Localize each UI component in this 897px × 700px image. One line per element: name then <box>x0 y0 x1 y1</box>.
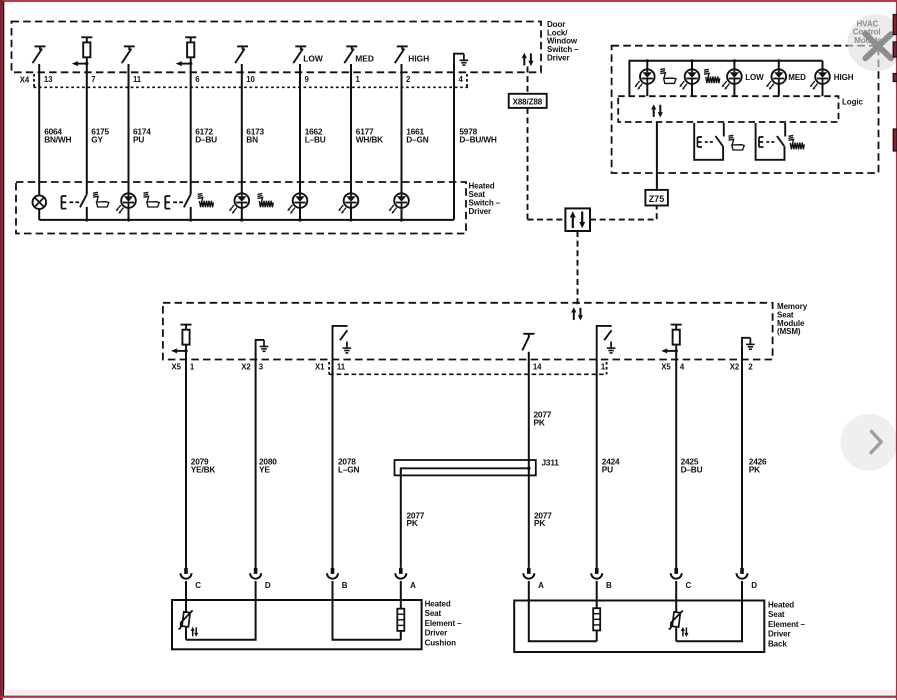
wire 6173 BN (pin 10 to LED) <box>241 64 243 193</box>
svg-text:10: 10 <box>246 75 255 84</box>
svg-text:L–GN: L–GN <box>338 464 360 474</box>
fuse F6 with feed arrow (pin 6) <box>176 37 197 66</box>
ground symbol G4 (pin 4) <box>454 54 468 65</box>
wire 1662 L-BU (pin 9 to LED) <box>299 64 301 193</box>
position switch w/ ground (X1 pin 11) <box>333 326 352 360</box>
seat icon (plain) <box>660 69 676 84</box>
svg-text:X2: X2 <box>730 362 740 371</box>
connector pin C (back) <box>671 568 692 601</box>
svg-text:PU: PU <box>602 464 613 474</box>
connector pin B (back) <box>591 568 612 601</box>
wire (dashed) harness box down to MSM <box>577 231 579 306</box>
svg-text:D–BU: D–BU <box>681 464 703 474</box>
svg-text:Heated: Heated <box>425 600 451 609</box>
svg-text:BN/WH: BN/WH <box>44 134 71 144</box>
svg-text:PK: PK <box>534 417 545 427</box>
Door Lock/Window Switch - Driver module box <box>12 22 542 73</box>
Heated Seat Element - Driver Back box <box>514 601 764 653</box>
svg-text:14: 14 <box>533 362 542 371</box>
harness pass-through box with up/down arrows <box>565 208 590 231</box>
right edge red tab 3 <box>893 74 897 82</box>
svg-text:J311: J311 <box>542 458 560 468</box>
wire 6172 D-BU (pin 6 to E-switch) <box>190 64 192 194</box>
svg-text:Driver: Driver <box>469 207 492 216</box>
wire (dashed) to body harness box <box>528 219 566 221</box>
ground symbol (X2 pin 3) <box>256 340 269 351</box>
svg-text:Seat: Seat <box>425 609 442 618</box>
connector X4 right separator <box>466 74 468 88</box>
svg-text:C: C <box>686 581 692 590</box>
right thin red edge line <box>896 0 897 700</box>
svg-text:11: 11 <box>133 75 142 84</box>
connector X4 left separator <box>33 74 35 88</box>
switch S1 MED (pin 1) <box>344 46 357 63</box>
heater element (cushion) <box>397 600 404 640</box>
svg-text:B: B <box>342 581 348 590</box>
svg-text:X2: X2 <box>241 362 251 371</box>
bottom pink fade <box>4 690 897 696</box>
switch lever (X1 pin 14) <box>522 334 534 351</box>
fuse FB2 with feed arrow (X5 pin 4) <box>661 325 682 354</box>
svg-text:Seat: Seat <box>768 610 785 619</box>
svg-text:D: D <box>751 581 757 590</box>
wire 1661 D-GN (pin 2 to LED) <box>401 64 403 193</box>
wire logic to Z75 <box>656 122 658 190</box>
svg-text:X4: X4 <box>20 75 30 84</box>
svg-text:Driver: Driver <box>547 53 570 62</box>
LED D1 <box>338 193 358 220</box>
svg-text:Logic: Logic <box>842 98 863 107</box>
svg-text:(MSM): (MSM) <box>777 327 801 336</box>
svg-text:Heated: Heated <box>768 601 794 610</box>
wire 2077 PK (X1-14 down through J311 to back A) <box>528 352 530 568</box>
wire 6177 WH/BK (pin 1 to LED) <box>350 64 352 193</box>
svg-text:X1: X1 <box>315 362 325 371</box>
svg-text:Z75: Z75 <box>649 194 665 204</box>
svg-text:3: 3 <box>259 362 264 371</box>
switch S2 HIGH (pin 2) <box>395 46 408 63</box>
label Heated Seat Element - Driver Back <box>768 601 806 649</box>
wire cushion C-D loop <box>186 600 256 640</box>
HVAC Control Module box <box>612 46 879 173</box>
heated seat icon <box>704 69 720 83</box>
wire 6064 BN/WH (pin 13 to lamp) <box>38 64 40 196</box>
LED H3 LOW <box>722 61 742 96</box>
heated seat icon <box>789 135 805 149</box>
svg-text:7: 7 <box>91 75 95 84</box>
Logic box <box>618 96 838 122</box>
svg-text:D–BU/WH: D–BU/WH <box>459 134 497 144</box>
svg-text:4: 4 <box>680 362 685 371</box>
svg-text:X5: X5 <box>172 362 182 371</box>
switch S13 (door lock sw, pin 13) <box>33 46 46 63</box>
right edge red tab 4 <box>893 129 897 151</box>
svg-text:Driver: Driver <box>768 630 791 639</box>
wire 5978 D-BU/WH (ground return, pin 4 to bus) <box>453 64 455 220</box>
label Heated Seat Element - Driver Cushion <box>425 600 463 648</box>
svg-text:MED: MED <box>788 73 806 82</box>
svg-text:HIGH: HIGH <box>834 73 854 82</box>
connector X1 left separator <box>328 362 330 374</box>
wire 2080 YE (X2-3 to cushion D) <box>255 348 257 568</box>
splice label X88/Z88 <box>509 94 547 108</box>
svg-text:PK: PK <box>407 518 418 528</box>
svg-text:YE/BK: YE/BK <box>191 464 216 474</box>
LED H1 <box>635 61 655 96</box>
splice J311 <box>395 460 536 475</box>
seat icon (cushion, plain) <box>93 192 109 207</box>
svg-text:D–BU: D–BU <box>195 134 217 144</box>
splice Z75 box <box>645 190 668 206</box>
svg-text:6: 6 <box>195 75 200 84</box>
Memory Seat Module box <box>163 303 773 360</box>
E solenoid switch bracket 1 (cushion) <box>694 123 724 160</box>
chevron next button <box>841 414 897 471</box>
svg-text:Element –: Element – <box>768 620 806 629</box>
E solenoid switch SW6 <box>165 194 191 220</box>
left black inner border line <box>3 2 5 698</box>
svg-text:A: A <box>410 581 416 590</box>
wire back C-D loop <box>676 601 742 642</box>
heater element (back) <box>593 601 600 642</box>
bottom red page border line <box>0 696 897 698</box>
svg-text:1: 1 <box>190 362 195 371</box>
svg-text:1: 1 <box>601 362 606 371</box>
wire back A down <box>529 601 597 642</box>
svg-text:Cushion: Cushion <box>425 638 457 647</box>
connector pin B (cushion) <box>327 568 348 600</box>
thermistor RT1 (cushion sensor) <box>178 600 198 640</box>
logic up/down arrows <box>651 104 663 117</box>
label Door Lock/Window Switch - Driver <box>547 20 579 62</box>
heated seat icon <box>258 194 274 208</box>
label Heated Seat Switch - Driver <box>469 182 501 216</box>
svg-text:13: 13 <box>44 75 53 84</box>
E solenoid switch SW7 <box>62 194 87 220</box>
svg-text:WH/BK: WH/BK <box>356 134 383 144</box>
wire 2424 PU (X1-1 to back B) <box>596 360 598 568</box>
svg-text:Driver: Driver <box>425 629 448 638</box>
LED D11 <box>116 193 136 220</box>
fuse F7 with feed arrow (pin 7) <box>72 37 93 66</box>
top red page border <box>0 0 897 2</box>
MSM data up/down arrows <box>571 307 583 320</box>
connector pin C (cushion) <box>181 568 202 600</box>
wire (dashed) X88/Z88 down <box>527 108 529 220</box>
watermark X close icon <box>866 34 892 58</box>
LED H5 HIGH <box>810 61 830 96</box>
connector pin D (cushion) <box>250 568 271 600</box>
wire 2426 PK (X2-2 to back D) <box>741 346 743 568</box>
svg-text:X5: X5 <box>661 362 671 371</box>
svg-text:2: 2 <box>748 362 753 371</box>
junction dots on bus <box>85 218 403 221</box>
label Memory Seat Module (MSM) <box>777 302 808 336</box>
ground symbol (X2 pin 2) <box>742 338 755 349</box>
Heated Seat Switch - Driver box <box>16 182 466 234</box>
seat icon (plain) <box>729 135 745 150</box>
svg-text:C: C <box>195 581 201 590</box>
E solenoid switch bracket 2 (back) <box>756 123 786 160</box>
connector pin A (back) <box>523 568 544 601</box>
wire (dashed) door switch to X88/Z88 <box>527 67 529 94</box>
wire (dashed) harness box to HVAC Z75 <box>590 206 657 220</box>
HVAC LED supply bus <box>629 61 822 96</box>
svg-text:11: 11 <box>337 362 346 371</box>
wire 6175 GY (pin 7 to E-switch) <box>86 64 88 194</box>
position switch w/ ground (X1 pin 1) <box>597 326 616 360</box>
svg-text:Back: Back <box>768 639 787 648</box>
watermark gray circle top-right <box>847 14 897 71</box>
Heated Seat Element - Driver Cushion box <box>172 600 422 649</box>
switch S10 (pin 10) <box>235 46 248 63</box>
ground bus wire inside switch <box>39 219 454 221</box>
data link up/down arrows (door switch) <box>522 53 534 66</box>
svg-text:YE: YE <box>259 464 270 474</box>
LED D2 <box>389 193 409 220</box>
heated seat icon <box>198 194 214 208</box>
right edge red tab 2 <box>893 42 897 57</box>
svg-text:PK: PK <box>534 518 545 528</box>
left maroon page border <box>0 0 3 700</box>
fuse FB1 with feed arrow (X5 pin 1) <box>171 325 192 354</box>
LED D9 <box>287 193 307 220</box>
LED D10 <box>229 193 249 220</box>
svg-text:HIGH: HIGH <box>408 54 429 64</box>
wire 2078 L-GN (X1-11 to cushion B) <box>332 360 334 568</box>
svg-text:GY: GY <box>91 134 103 144</box>
connector pin D (back) <box>737 568 758 601</box>
svg-text:PU: PU <box>133 134 144 144</box>
seat icon (cushion, plain) <box>144 192 160 207</box>
wire 6174 PU (pin 11 to LED) <box>128 64 130 193</box>
svg-text:Element –: Element – <box>425 619 463 628</box>
wire 2079 YE/BK (X5-1 to cushion C) <box>185 351 187 568</box>
svg-text:L–BU: L–BU <box>305 134 326 144</box>
svg-text:A: A <box>538 581 544 590</box>
svg-text:BN: BN <box>246 134 258 144</box>
HVAC Control Module gray label <box>853 19 882 45</box>
svg-text:PK: PK <box>749 464 760 474</box>
indicator lamp L1 (circle X) <box>33 195 47 220</box>
svg-text:X88/Z88: X88/Z88 <box>513 97 543 106</box>
connector X4 dotted strip line <box>34 86 469 88</box>
wire 2425 D-BU (X5-4 to back C) <box>675 351 677 568</box>
svg-text:D: D <box>265 581 271 590</box>
wire 2077 PK (J311 branch to cushion A) <box>400 468 402 568</box>
right edge red tab 1 <box>893 15 897 35</box>
svg-text:MED: MED <box>355 54 374 64</box>
wire cushion B down <box>333 600 401 640</box>
svg-text:D–GN: D–GN <box>406 134 428 144</box>
svg-text:B: B <box>606 581 612 590</box>
thermistor RT2 (back sensor) <box>669 601 689 642</box>
LED H2 <box>679 61 699 96</box>
junction dots on HVAC bus <box>646 59 781 62</box>
connector X1 right separator <box>606 362 608 374</box>
connector X1 dotted strip line <box>329 373 606 375</box>
connector pin A (cushion) <box>395 568 416 600</box>
LED H4 MED <box>766 61 786 96</box>
svg-text:LOW: LOW <box>303 54 323 64</box>
svg-text:LOW: LOW <box>745 73 764 82</box>
switch S11 (pin 11) <box>122 46 135 63</box>
switch S9 LOW (pin 9) <box>293 46 306 63</box>
